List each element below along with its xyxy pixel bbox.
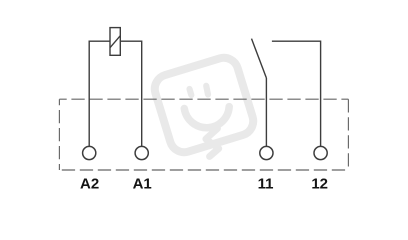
watermark logo bbox=[151, 54, 257, 156]
box bottom edge bbox=[59, 169, 348, 171]
box left edge bbox=[58, 99, 60, 170]
switch blade NO contact bbox=[252, 39, 267, 78]
wire 11 vertical bbox=[265, 78, 267, 147]
box top edge bbox=[59, 98, 348, 100]
terminal 12 bbox=[314, 146, 327, 159]
relay coil K1 bbox=[110, 28, 120, 56]
wire coil right horizontal + A1 vertical bbox=[120, 41, 141, 146]
svg-text:11: 11 bbox=[258, 176, 274, 193]
box right edge bbox=[347, 99, 349, 170]
svg-text:A1: A1 bbox=[133, 176, 152, 193]
svg-text:A2: A2 bbox=[80, 176, 99, 193]
terminal 11 bbox=[260, 146, 273, 159]
dashed device outline box bbox=[59, 99, 348, 170]
terminal A1 bbox=[135, 146, 148, 159]
wire A2 vertical + coil left horizontal bbox=[89, 41, 110, 146]
terminal A2 bbox=[83, 146, 96, 159]
svg-text:12: 12 bbox=[311, 176, 328, 193]
wire fixed contact horizontal + 12 vertical bbox=[272, 41, 321, 146]
